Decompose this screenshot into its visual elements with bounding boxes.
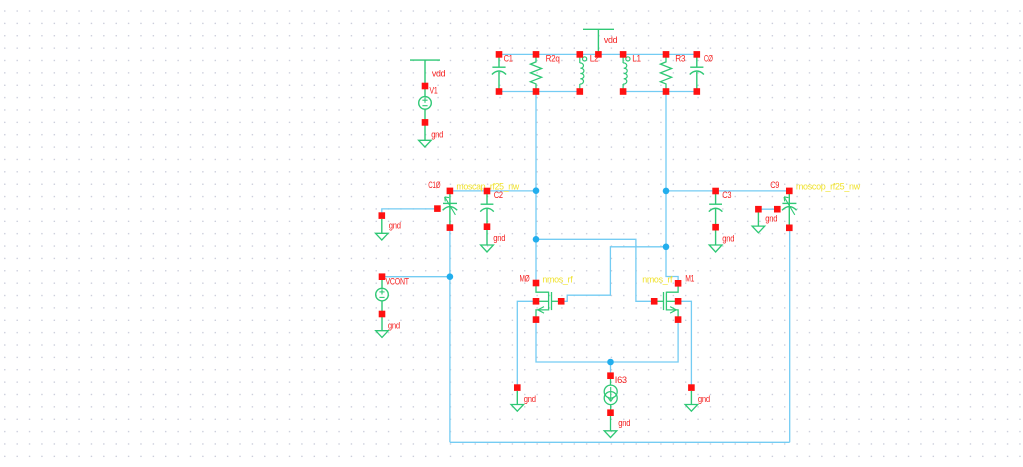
- capacitor C0: [690, 56, 704, 90]
- wire: cross-couple right node to M0 gate: [561, 247, 666, 301]
- wire: VCONT to tuning node: [382, 276, 450, 278]
- svg-text:gnd: gnd: [389, 221, 401, 231]
- junction: right node gate tap: [663, 244, 670, 251]
- wire: tail node to I63: [610, 362, 612, 376]
- junction: right output node: [663, 188, 670, 195]
- svg-text:nmos_rf: nmos_rf: [542, 275, 573, 285]
- svg-text:gnd: gnd: [765, 214, 777, 224]
- svg-text:gnd: gnd: [698, 394, 710, 404]
- wire: right varactor bulk to gnd: [758, 208, 777, 210]
- ground (right varactor bulk): [755, 206, 762, 213]
- wire: right varactor bottom down right tuning rail: [789, 229, 791, 442]
- ground (M0 bulk): [514, 384, 521, 391]
- current source I63: [604, 379, 617, 431]
- svg-text:L1: L1: [632, 54, 641, 64]
- junction: tail node: [607, 359, 614, 366]
- capacitor C2: [480, 193, 494, 246]
- svg-text:R2q: R2q: [546, 54, 560, 64]
- svg-text:R3: R3: [675, 54, 685, 64]
- svg-text:gnd: gnd: [524, 394, 536, 404]
- wire: M0 source to tail node: [536, 320, 611, 362]
- svg-text:M1: M1: [685, 274, 694, 284]
- ground (C3): [709, 245, 722, 252]
- ground (VCONT): [376, 331, 389, 338]
- junction: left node gate tap: [533, 236, 540, 243]
- wire: cross-couple left node to M1 gate: [536, 239, 654, 301]
- transistor M0 (nmos_rf): [536, 285, 558, 317]
- svg-text:gnd: gnd: [493, 233, 505, 243]
- wire: left tank drop to M0 drain: [535, 92, 537, 284]
- inductor L1: [623, 56, 630, 90]
- svg-text:V1: V1: [430, 86, 438, 96]
- svg-text:CØ: CØ: [704, 54, 713, 64]
- svg-text:VCONT: VCONT: [386, 276, 410, 286]
- wire: M1 source to tail node: [611, 320, 679, 362]
- varactor C9 (moscop_rf25_nw): [782, 193, 797, 227]
- svg-text:gnd: gnd: [388, 321, 400, 331]
- capacitor C1: [492, 56, 506, 90]
- ground (C2): [481, 245, 494, 252]
- voltage source VCONT: [376, 280, 389, 331]
- wire: M0 bulk to gnd: [517, 301, 536, 387]
- ground (left varactor bulk): [379, 212, 386, 219]
- ground (M1 bulk): [688, 384, 695, 391]
- resistor R2q: [530, 56, 541, 90]
- svg-text:gnd: gnd: [618, 418, 630, 428]
- wire: M1 bulk to gnd: [678, 301, 691, 387]
- ground (I63): [604, 431, 617, 438]
- wire: right tank drop to M1 drain: [666, 92, 678, 284]
- wire: tank bottom rail right: [623, 91, 697, 93]
- svg-text:C3: C3: [722, 190, 731, 200]
- svg-text:moscop_rf25_nw: moscop_rf25_nw: [796, 181, 861, 191]
- vdd symbol (tank rail): [583, 29, 614, 52]
- wire: bottom tuning rail: [450, 441, 790, 443]
- svg-text:gnd: gnd: [722, 234, 734, 244]
- svg-text:C2: C2: [494, 190, 503, 200]
- svg-text:C1: C1: [504, 54, 513, 64]
- ground (V1): [419, 140, 432, 147]
- wire: left varactor bulk to gnd: [382, 209, 438, 216]
- svg-text:C9: C9: [770, 180, 779, 190]
- svg-text:C1Ø: C1Ø: [428, 180, 440, 190]
- capacitor C3: [709, 193, 723, 246]
- voltage source V1: [410, 60, 440, 140]
- junction: left output node: [533, 187, 540, 194]
- svg-text:I63: I63: [615, 375, 627, 385]
- wire: right output node horizontal: [666, 190, 789, 192]
- varactor C10 (moscap_rf25_nw): [443, 193, 458, 227]
- svg-text:vdd: vdd: [432, 68, 446, 78]
- inductor L2: [580, 56, 587, 90]
- svg-text:vdd: vdd: [604, 35, 618, 45]
- resistor R3: [660, 56, 671, 90]
- wire: left varactor bottom down the left tuning rail: [449, 229, 451, 442]
- wire: tank bottom rail left: [499, 91, 580, 93]
- junction: VCONT tuning node: [447, 273, 454, 280]
- svg-text:L2: L2: [590, 54, 599, 64]
- svg-text:MØ: MØ: [520, 274, 530, 284]
- transistor M1 (nmos_rf): [657, 285, 678, 317]
- svg-text:nmos_rf: nmos_rf: [642, 275, 673, 285]
- wire: left output node horizontal: [450, 190, 536, 192]
- wire: top vdd rail: [499, 53, 697, 55]
- svg-text:gnd: gnd: [431, 129, 443, 139]
